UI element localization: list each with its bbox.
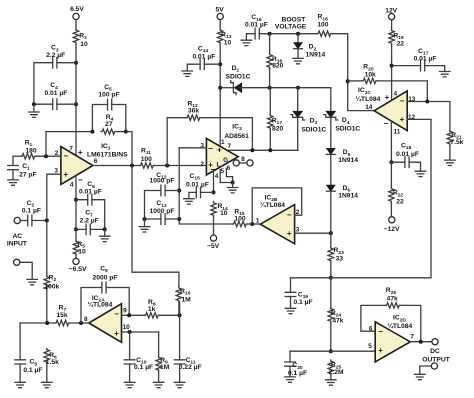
diode D4 SDIO1C [324,111,338,120]
capacitor C5 [108,99,112,110]
svg-text:0.1 µF: 0.1 µF [288,370,307,377]
node C7 right [103,227,107,231]
label -6.5V [69,266,87,273]
node C15/R14 [212,190,216,194]
svg-text:0.01 µF: 0.01 µF [245,22,268,29]
node pin13/R20 [425,100,429,104]
label IC1 [87,143,128,159]
wire IC1 output [93,165,140,167]
op-amp IC2D quarter TL084 [375,322,410,362]
wire C3 right lead [57,62,76,64]
svg-text:+: + [385,93,390,102]
pin 6 IC2D [369,326,373,333]
wire IC2A pin10 [122,331,159,333]
svg-text:0.1 µF: 0.1 µF [134,364,153,371]
plus rail IC3 [217,145,222,154]
svg-text:100 pF: 100 pF [98,92,119,99]
wire R14 to -5V [213,217,215,235]
svg-text:¼TL084: ¼TL084 [260,201,285,209]
label C9 2000pF [93,265,118,281]
ground under C11 [174,382,184,387]
wire C17 leads [392,66,445,71]
wire R17 leads [269,88,271,151]
capacitor C1 [8,166,19,170]
wire C5 loop [92,105,125,132]
node C4 left [32,102,36,106]
wire D5 to D6 [330,154,332,185]
svg-text:100k: 100k [44,283,59,290]
resistor R16 [267,54,272,69]
svg-text:47k: 47k [332,318,343,325]
svg-text:+: + [287,229,292,238]
label C15 0.01uF [186,173,209,189]
svg-text:10: 10 [224,40,232,47]
label R16 820 [272,56,284,70]
ground under R21 [445,160,455,165]
label R1 180 [25,139,37,154]
svg-text:AC: AC [12,233,22,240]
pin 9 IC2A [123,308,127,315]
svg-text:27 pF: 27 pF [19,172,36,179]
label C4 [44,82,67,97]
label IC2D [387,315,412,330]
svg-text:36k: 36k [188,108,199,115]
diode D5 1N914 [326,148,335,154]
wire D2 stub [297,34,299,43]
wire D3 top lead [297,88,299,112]
label IC3 [224,123,249,140]
wire R26 to output [401,305,421,341]
wire IC2D pin6 feedback [361,305,386,331]
diode D3 SDIO1C [291,111,305,120]
svg-text:0.01 µF: 0.01 µF [44,90,67,97]
resistor R5 [73,240,78,255]
svg-text:+: + [114,329,119,338]
node D1 anode [218,86,222,90]
wire DC lo to ground [420,366,432,374]
label 12V [385,7,397,14]
label IC2A [87,295,112,309]
label C2 0.1uF [22,200,41,215]
diode D2 1N914 [294,43,303,49]
capacitor C13 [161,214,165,225]
node IC2B pin1 [250,222,254,226]
pin 7 IC1 [69,145,73,152]
resistor R26 [386,303,401,308]
label D5 [338,149,358,164]
wire R15 to IC2B pin1 [248,223,261,225]
svg-text:10: 10 [220,210,228,217]
wire C7 leads [76,228,105,230]
plus in IC3 [208,161,213,170]
wire R23 leads [330,233,332,278]
wire C20 to ground [289,366,291,376]
svg-text:G: G [223,157,228,164]
node pin2 [44,154,48,158]
op-amp IC2A quarter TL084 [89,304,122,343]
comparator IC3 AD8561 [206,138,238,175]
wire D1 to boost rail [239,87,330,89]
svg-text:100: 100 [317,22,328,29]
ground under R6 [42,382,52,387]
svg-text:7: 7 [228,143,232,150]
label R2 100k [44,274,59,290]
ground under C13 [139,227,149,232]
node C12 right [177,189,181,193]
wire C13 leads [145,218,180,220]
wire IC2B feedback loop [252,188,302,224]
label -12V [384,226,400,233]
minus supply IC2C [384,119,389,128]
wire IC3 pin7 rail [228,149,299,151]
resistor R23 [328,247,333,262]
node midrail [329,276,333,280]
svg-text:1N914: 1N914 [306,52,326,59]
svg-text:+: + [78,148,83,157]
label IC2B [260,194,285,209]
svg-text:5: 5 [221,168,225,175]
node R4 right [124,130,128,134]
svg-text:+: + [63,170,68,179]
capacitor C3 [53,57,57,68]
label C12 1000pF [150,172,175,185]
svg-text:7: 7 [410,334,414,341]
wire C13 ground stub [144,219,146,226]
svg-text:L: L [216,162,220,169]
node R17 bottom [268,148,272,152]
node C13 left [143,217,147,221]
label 5V [216,6,225,13]
wire C12/C13 right riser [179,148,232,224]
node IC1 out [130,164,134,168]
svg-text:AD8561: AD8561 [224,133,249,140]
wire R16 leads [269,34,271,88]
wire 5V to R13 [219,20,221,29]
wire D4 to D5 [330,117,332,148]
wire AC to C2 [20,220,27,222]
capacitor C12 [161,185,165,196]
svg-text:33: 33 [336,255,344,262]
resistor R22 [389,188,394,203]
label C8 0.1uF [23,359,42,374]
wire IC3 pin5 stub [220,170,232,183]
wire C7 ground stub [104,229,106,235]
pin 2 IC1 [55,150,59,157]
capacitor C16 [255,28,259,39]
svg-text:47k: 47k [387,295,398,302]
wire R9 stub [158,332,160,356]
pin 2 IC2B [296,209,300,216]
node C16/R16 [268,32,272,36]
svg-text:2: 2 [55,150,59,157]
resistor R13 [218,29,223,44]
wire C12 leads [145,191,180,220]
ground under C1 [8,180,18,185]
svg-text:4: 4 [394,90,398,97]
wire C4 ground stub [33,104,35,111]
wire R3 to IC1 pin7 [75,44,77,156]
resistor R24 [328,308,333,323]
wire 6.5V to R3 [75,20,77,29]
label C14 0.01uF [192,45,215,60]
wire R11 to IC3 pin2 [155,165,207,167]
node R16 bottom [268,86,272,90]
wire pin2 riser to R4 [46,132,92,157]
wire C10 to ground [129,364,131,382]
minus in IC1 [63,152,68,161]
wire AC lo to ground [20,262,32,279]
plus in IC2D [378,346,383,355]
label C1 27pF [19,163,36,179]
node IC2B pin3/D6 [329,231,333,235]
wire R2 to R7 node [46,290,48,323]
pin L IC3 [216,162,220,169]
wire C4 leads [34,103,76,105]
svg-text:0.1 µF: 0.1 µF [23,367,42,374]
label D4 [335,117,360,132]
ground under R25 [326,380,336,385]
svg-text:1N914: 1N914 [338,193,358,200]
capacitor C2 [28,215,32,226]
pin 1 IC3 [221,139,225,146]
pin 8 IC2A [84,316,88,323]
label R12 36k [187,100,199,114]
svg-text:5V: 5V [216,6,225,13]
pin 10 IC2A [123,324,131,331]
wire C1 stub [12,156,14,165]
resistor R15 [233,221,248,226]
wire pin5 rail [290,350,375,352]
wire IC3 pin3 [179,147,206,149]
label R19 22 [393,32,404,47]
svg-text:−: − [208,144,213,153]
node D3 top [296,86,300,90]
svg-text:820: 820 [272,62,283,69]
label C7 2.2uF [80,210,99,225]
diode D6 1N914 [326,185,335,191]
label C16 0.01uF [245,14,268,29]
resistor R6 [44,349,49,364]
wire C1 to ground [12,170,14,180]
pin 1 IC2B [256,217,260,224]
svg-text:SDIO1C: SDIO1C [226,73,251,80]
label 6.5V [70,6,84,13]
svg-text:1.5k: 1.5k [46,359,59,366]
svg-text:2.2 µF: 2.2 µF [80,217,99,224]
wire node to R5 [75,229,77,240]
label R5 10 [77,241,86,255]
wire R1 left lead [13,155,21,157]
plus in IC2B [287,229,292,238]
wire C16 to R18 [259,33,317,35]
ground under C10 [124,382,134,387]
svg-text:11: 11 [394,129,401,136]
ground under C16 [241,40,251,45]
svg-text:¼TL084: ¼TL084 [87,301,112,309]
node pin10 [128,330,132,334]
wire C2 to node [32,220,47,222]
wire R5 to terminal [75,255,77,258]
node C13 right [177,217,181,221]
svg-text:15k: 15k [56,312,67,319]
svg-text:27: 27 [105,121,113,128]
capacitor C11 [174,360,185,364]
terminal IC3 out a [233,160,239,166]
svg-text:9: 9 [123,308,127,315]
wire C19 to ground [290,297,292,308]
label R24 47k [331,310,344,325]
resistor R11 [140,163,155,168]
ground under IC3 [227,188,237,193]
svg-text:7: 7 [69,145,73,152]
svg-text:22: 22 [397,41,405,48]
pin 6 IC3 [227,165,231,172]
svg-text:2000 pF: 2000 pF [93,274,118,281]
ground under C15 [184,199,194,204]
wire R12 to pin7 rail [201,118,252,151]
svg-text:0.1 µF: 0.1 µF [22,207,41,214]
op-amp IC2B quarter TL084 [260,205,294,244]
wire C10 stub [129,332,131,360]
capacitor C20 [285,362,296,366]
svg-text:2: 2 [200,161,204,168]
wire R25 to ground [330,375,332,379]
node C14 [218,62,222,66]
node R20 in [346,79,350,83]
svg-text:0.1 µF: 0.1 µF [293,299,312,306]
node C7 left [74,227,78,231]
terminal AC input lo [14,259,20,265]
pin 14 IC2C [365,104,373,111]
label C17 0.01uF [414,48,437,63]
svg-text:−: − [400,97,405,106]
minus in IC2A [114,309,119,318]
svg-text:1: 1 [256,217,260,224]
plus in IC2C [400,115,405,124]
ground under R9 [153,382,163,387]
wire C14 leads [187,64,220,70]
svg-text:10k: 10k [365,71,376,78]
label R8 1k [148,299,156,313]
resistor R7 [55,320,70,325]
wire R18 to IC2C output [332,34,374,111]
label D1 [226,65,251,80]
terminal DC out hi [432,339,438,345]
svg-text:7.5k: 7.5k [450,139,463,146]
label R11 100 [141,147,152,163]
wire R4 to output node [116,132,132,166]
label R25 2.2M [329,362,344,377]
resistor R12 [186,115,201,120]
pin 4 IC1 [70,181,74,188]
svg-text:14: 14 [365,104,373,111]
svg-text:1M: 1M [160,364,170,371]
minus supply IC1 [78,175,83,184]
op-amp IC1 LM6171B/NS [61,147,93,185]
svg-text:100: 100 [141,156,152,163]
wire R10 to R8 node [178,302,180,315]
label R20 10k [363,64,376,79]
capacitor C6 [88,194,92,205]
wire R6 to ground [46,364,48,382]
capacitor C10 [124,360,135,364]
wire IC2A pin9 [122,314,145,316]
wire R13 to IC3 pin1 [219,44,221,146]
label R15 100 [234,208,246,222]
wire R1 to IC1 pin2 [36,155,61,157]
resistor R14 [211,202,216,217]
wire C15 leads [189,192,214,198]
wire output long drop to R10 [132,166,179,288]
wire node to R2 [46,221,48,276]
svg-text:OUTPUT: OUTPUT [422,357,450,364]
diode D1 SDIO1C [231,81,242,95]
ground under C4 [29,112,39,117]
ground under C8 [15,382,25,387]
svg-text:−: − [63,152,68,161]
terminal -6.5V [73,258,79,264]
capacitor C15 [196,187,200,198]
svg-text:8: 8 [241,156,245,163]
svg-text:6: 6 [227,165,231,172]
svg-text:INPUT: INPUT [7,241,28,248]
node D2 [296,32,300,36]
node C6 left [74,198,78,202]
resistor R1 [21,154,36,159]
svg-text:+: + [217,145,222,154]
node C17 [390,64,394,68]
label R18 100 [317,14,328,29]
label D2 [306,44,326,59]
label R6 1.5k [46,352,59,366]
svg-text:4: 4 [70,181,74,188]
capacitor C19 [285,292,296,296]
svg-text:DC: DC [430,348,440,355]
node C2/R2 [45,219,49,223]
svg-text:4: 4 [215,173,219,180]
label C19 0.1uF [293,291,312,306]
svg-text:6: 6 [94,158,98,165]
svg-text:−12V: −12V [384,226,400,233]
svg-text:3: 3 [54,167,58,174]
wire C8 to ground [19,364,21,382]
wire C19 stub [290,278,292,293]
wire R7 leads [20,322,89,324]
svg-text:SDIO1C: SDIO1C [301,126,326,133]
svg-text:¼TL084: ¼TL084 [355,95,380,103]
wire R22 leads [390,162,392,217]
capacitor C7 [86,224,90,235]
capacitor C4 [53,99,57,110]
ground under C18 [415,171,425,176]
label DC OUTPUT [422,348,450,363]
ground under C19 [285,308,295,313]
svg-text:−5V: −5V [207,243,220,250]
wire IC3 gnd stub [232,183,234,188]
wire IC2C pin12 [407,118,431,120]
wire IC2B pin3 [295,232,331,234]
pin 12 IC2C [408,114,416,121]
resistor R2 [44,275,49,290]
svg-text:−6.5V: −6.5V [69,266,87,273]
wire C18 leads [391,162,420,171]
terminal -12V [389,217,395,223]
svg-text:−: − [384,119,389,128]
plus in IC2A [114,329,119,338]
node R4 left [90,130,94,134]
label BOOST VOLTAGE [275,16,307,30]
svg-text:−: − [287,211,292,220]
